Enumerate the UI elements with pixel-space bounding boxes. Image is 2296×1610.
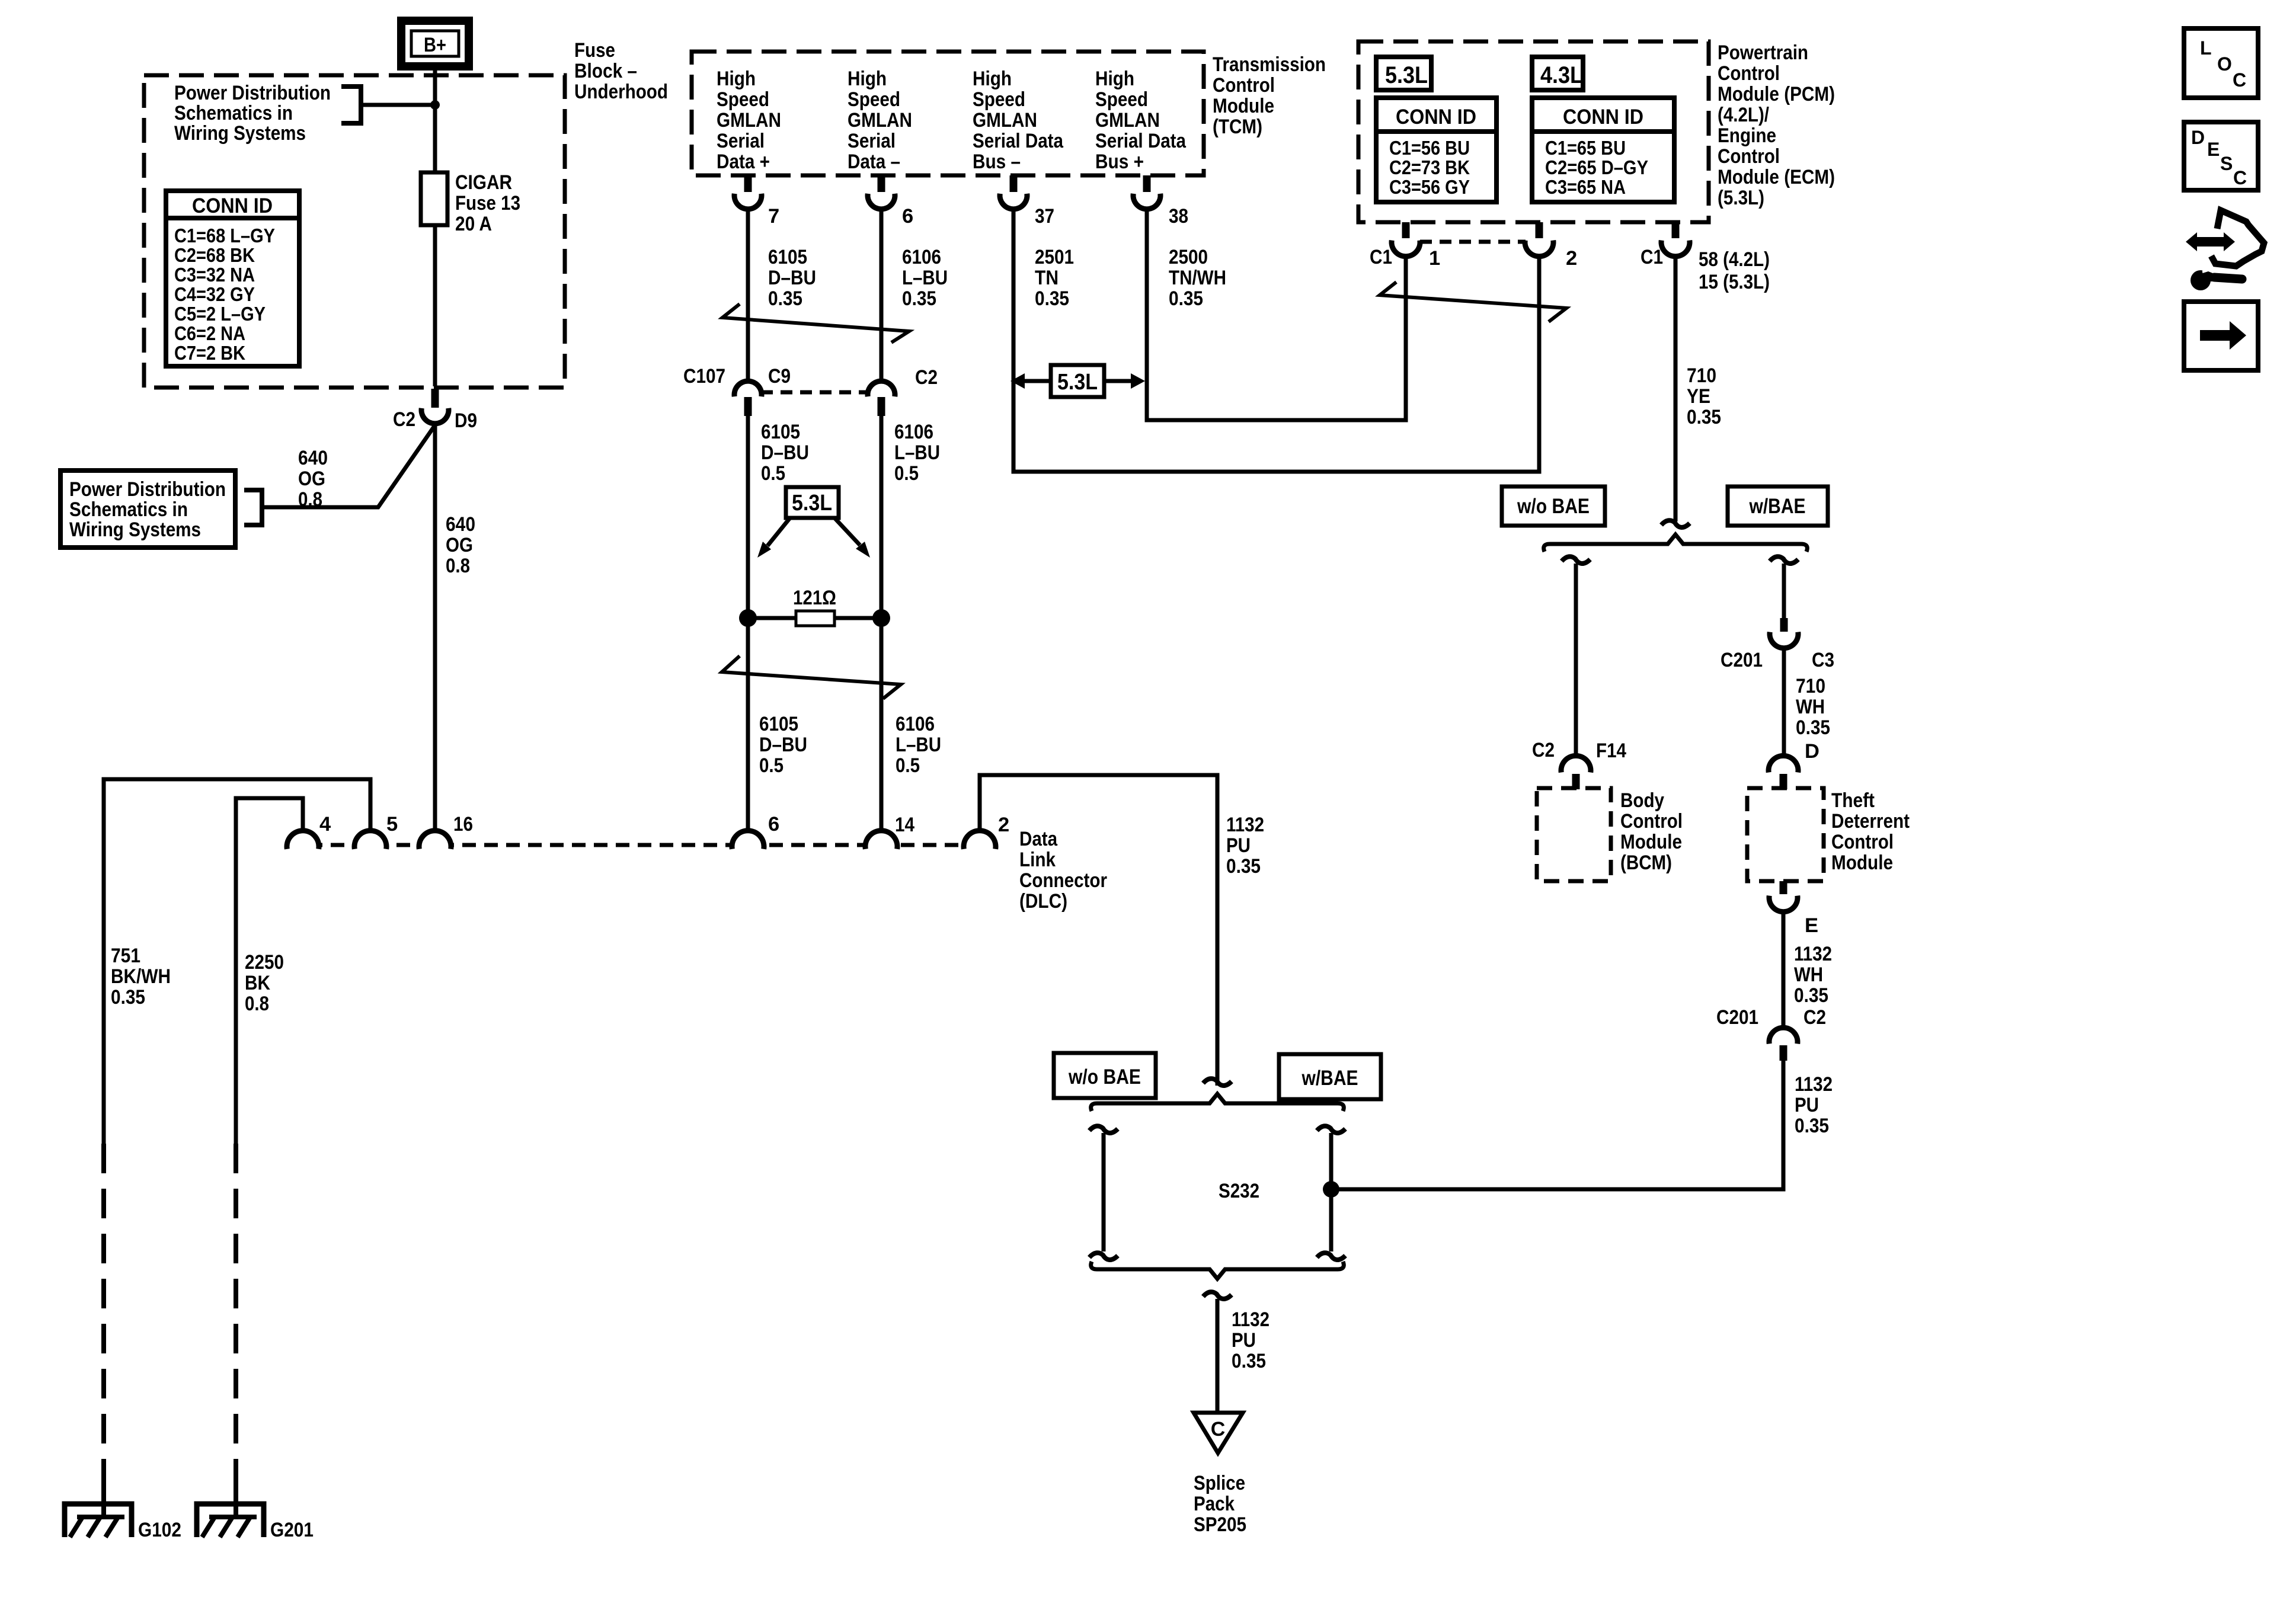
wire 6105 D-BU 0.5 — [746, 415, 750, 831]
node junction right (6106) — [872, 609, 890, 627]
svg-text:E: E — [1805, 914, 1818, 937]
svg-text:D9: D9 — [455, 409, 477, 432]
svg-text:5: 5 — [386, 813, 398, 836]
twisted pair symbol lower — [722, 656, 901, 699]
svg-text:D: D — [2191, 127, 2205, 148]
icon wrench — [2191, 270, 2211, 290]
wire DLC pin 4 to ground G201 run — [236, 798, 303, 1144]
wire 710 YE 0.35 — [1674, 257, 1678, 521]
node junction on B+ feed — [430, 100, 440, 110]
svg-text:C201: C201 — [1721, 649, 1763, 671]
splice S232 — [1323, 1181, 1339, 1198]
wire 2500 TN/WH 0.35 — [1147, 209, 1406, 420]
DLC pin 16 connector — [419, 831, 451, 849]
DLC pin 5 connector — [354, 831, 386, 849]
svg-text:2: 2 — [1566, 247, 1577, 270]
wire break symbol — [1661, 520, 1690, 527]
BCM dashed box — [1537, 788, 1611, 881]
svg-text:w/o BAE: w/o BAE — [1068, 1065, 1141, 1089]
svg-text:58 (4.2L)15 (5.3L): 58 (4.2L)15 (5.3L) — [1699, 248, 1770, 293]
option brace upper — [1544, 534, 1808, 552]
data link connector dashed line — [287, 843, 998, 847]
DLC pin 4 connector — [287, 831, 319, 849]
box w/o BAE (lower) — [1054, 1053, 1156, 1098]
TCM pin 38 connector — [1143, 175, 1151, 192]
svg-text:5.3L: 5.3L — [1385, 62, 1428, 88]
theft deterrent dashed box — [1747, 788, 1824, 881]
PCM/ECM dashed box — [1358, 41, 1709, 222]
option brace bottom (splice) — [1091, 1262, 1344, 1279]
option brace top (splice) — [1091, 1094, 1344, 1111]
svg-text:CONN ID: CONN ID — [1396, 105, 1476, 129]
svg-text:37: 37 — [1035, 205, 1054, 228]
resistor 121 ohm — [796, 611, 834, 626]
wire 2501 TN 0.35 — [1013, 209, 1539, 472]
svg-text:6: 6 — [902, 205, 913, 228]
connector C9 — [734, 381, 762, 396]
icon LOC — [2184, 28, 2258, 98]
connector C107 dashed line — [761, 391, 868, 395]
svg-text:C9: C9 — [768, 365, 791, 388]
svg-text:C: C — [1211, 1418, 1226, 1441]
PCM C1 dashed connector line — [1420, 240, 1526, 244]
svg-text:C2: C2 — [393, 408, 415, 431]
svg-text:C1: C1 — [1641, 246, 1663, 268]
PCM pin 58/15 connector — [1672, 222, 1680, 238]
wire between junctions — [748, 616, 881, 620]
box w/BAE (upper) — [1728, 486, 1828, 526]
svg-text:C1=56 BUC2=73 BKC3=56 GY: C1=56 BUC2=73 BKC3=56 GY — [1389, 137, 1470, 198]
box w/o BAE (upper) — [1502, 486, 1605, 526]
wire branch w/BAE — [1770, 556, 1798, 564]
5.3L tag box — [1376, 57, 1431, 90]
svg-text:G201: G201 — [270, 1519, 314, 1541]
connector D (theft deterrent) — [1769, 756, 1798, 772]
connector C201 C3 — [1780, 618, 1788, 632]
connector C201 C2 — [1769, 1028, 1798, 1044]
wire break symbol — [1203, 1078, 1232, 1086]
wire w/o BAE branch — [1089, 1126, 1118, 1133]
svg-text:L: L — [2200, 37, 2212, 59]
icon DESC — [2184, 122, 2258, 190]
TCM pin 6 connector — [878, 175, 885, 192]
connector C2 (inline) — [868, 381, 895, 396]
svg-text:C2: C2 — [1803, 1006, 1826, 1029]
wire B+ feed — [433, 66, 437, 386]
svg-text:B+: B+ — [424, 34, 446, 56]
5.3L callout box (terminating resistor) — [786, 487, 839, 518]
svg-text:C2: C2 — [915, 366, 938, 389]
box w/BAE (lower) — [1279, 1054, 1381, 1099]
svg-text:C3: C3 — [1812, 649, 1834, 671]
wire 640 OG branch diagonal — [262, 426, 434, 507]
4.3L tag box — [1532, 57, 1583, 90]
svg-text:D: D — [1805, 740, 1819, 763]
svg-text:E: E — [2207, 139, 2220, 160]
svg-text:CONN ID: CONN ID — [192, 194, 273, 217]
CONN ID table PCM 5.3L — [1376, 98, 1496, 202]
wire 1132 PU 0.35 to splice pack — [1216, 1299, 1220, 1413]
splice pack triangle C — [1194, 1413, 1243, 1453]
CONN ID table fuse block — [166, 191, 299, 366]
wire break symbol — [1203, 1292, 1232, 1299]
wire to power distribution reference — [361, 103, 433, 107]
icon forward arrow — [2184, 302, 2258, 370]
svg-text:16: 16 — [453, 813, 473, 836]
icon part locator with arrow — [2211, 210, 2264, 266]
wire 710 WH 0.35 — [1782, 648, 1786, 757]
twisted pair symbol PCM — [1380, 282, 1566, 322]
svg-text:O: O — [2217, 53, 2232, 75]
power symbol B+ — [401, 21, 469, 66]
svg-text:14: 14 — [895, 814, 914, 836]
svg-text:C: C — [2233, 167, 2247, 188]
reference bracket power distribution (left) — [244, 490, 262, 525]
svg-text:C201: C201 — [1716, 1006, 1758, 1029]
PCM pin 1 connector — [1402, 222, 1410, 238]
svg-text:w/BAE: w/BAE — [1749, 495, 1806, 518]
connector C2 F14 (BCM) — [1561, 756, 1591, 772]
svg-text:5.3L: 5.3L — [1057, 370, 1098, 395]
svg-text:C: C — [2233, 69, 2246, 91]
svg-text:w/o BAE: w/o BAE — [1517, 495, 1590, 518]
fuse CIGAR Fuse 13 20 A — [421, 172, 447, 225]
svg-text:6: 6 — [768, 813, 779, 836]
ground G201 — [197, 1504, 264, 1537]
fuse block underhood dashed box — [144, 75, 565, 388]
svg-text:2: 2 — [998, 814, 1009, 836]
svg-text:C1: C1 — [1370, 246, 1392, 268]
svg-text:5.3L: 5.3L — [792, 491, 832, 516]
svg-text:1: 1 — [1429, 247, 1440, 270]
svg-text:38: 38 — [1169, 205, 1188, 228]
box Power Distribution Schematics (left) — [60, 470, 235, 548]
reference bracket power distribution (top) — [341, 87, 361, 123]
svg-text:C107: C107 — [683, 365, 725, 388]
CONN ID table PCM 4.3L — [1532, 98, 1674, 202]
wire 6106 L-BU 0.35 from TCM pin 6 — [880, 209, 884, 380]
svg-text:4.3L: 4.3L — [1540, 62, 1583, 88]
node junction left (6105) — [739, 609, 757, 627]
connector C2 D9 pin stub — [431, 389, 439, 408]
wire w/BAE branch — [1317, 1126, 1345, 1133]
svg-text:C2: C2 — [1532, 739, 1555, 761]
wire 1132 WH 0.35 — [1782, 912, 1786, 1028]
TCM pin 37 connector — [1010, 175, 1018, 192]
wire 6105 D-BU 0.35 from TCM pin 7 — [746, 209, 750, 380]
svg-text:CONN ID: CONN ID — [1563, 105, 1643, 129]
TCM pin 7 connector — [744, 175, 752, 192]
twisted pair symbol upper — [722, 304, 909, 343]
svg-text:7: 7 — [768, 205, 779, 228]
PCM pin 2 connector — [1536, 222, 1543, 238]
svg-text:4: 4 — [319, 813, 331, 836]
DLC pin 14 connector — [865, 831, 897, 849]
DLC pin 2 connector — [964, 831, 996, 849]
wire branch w/o BAE to BCM — [1562, 556, 1590, 564]
ground G102 — [65, 1504, 132, 1537]
wire 1132 PU 0.35 to S232 — [1331, 1060, 1783, 1189]
DLC pin 6 connector — [732, 831, 764, 849]
connector C2 D9 cup — [421, 408, 449, 424]
svg-text:w/BAE: w/BAE — [1302, 1067, 1358, 1090]
svg-text:S232: S232 — [1219, 1180, 1259, 1202]
svg-text:G102: G102 — [138, 1519, 181, 1541]
TCM dashed box — [692, 52, 1204, 175]
wire 640 OG main vertical — [433, 424, 437, 831]
5.3L callout box (bus wires) — [1051, 365, 1104, 397]
svg-text:121Ω: 121Ω — [793, 587, 836, 609]
wire DLC pin 5 to ground G102 run — [104, 779, 370, 1144]
connector E (theft deterrent bottom) — [1780, 881, 1787, 894]
svg-text:F14: F14 — [1596, 740, 1626, 762]
wire 6106 L-BU 0.5 — [880, 415, 884, 831]
wire 1132 PU 0.35 from DLC pin 2 — [980, 775, 1217, 1086]
svg-text:S: S — [2220, 153, 2233, 174]
